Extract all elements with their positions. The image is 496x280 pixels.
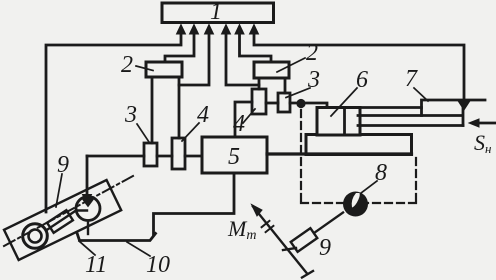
- wire valve 4R to valve 3R: [266, 102, 278, 105]
- hatch ticks on screw: [262, 221, 274, 232]
- svg-text:8: 8: [375, 160, 387, 186]
- block 2 right (sensor): [254, 62, 289, 78]
- junction node: [296, 99, 305, 108]
- arrow into block 1 (1st): [177, 25, 186, 35]
- pump block 11 rotated housing: [4, 180, 121, 260]
- arrow into block 1 (4th): [222, 25, 231, 35]
- wire from duct right line: [179, 33, 209, 85]
- wire body right line: [284, 78, 287, 93]
- wire riser to pump: [86, 156, 89, 197]
- pointer line label 8: [361, 181, 377, 193]
- arrow S_n feed: [477, 122, 496, 125]
- svg-text:9: 9: [57, 152, 69, 178]
- guide line barrel top to block 7: [360, 106, 422, 109]
- wire valve 3R to cylinder: [290, 103, 327, 108]
- piston rod upper line: [358, 114, 462, 117]
- rod from coupling 8: [314, 213, 343, 234]
- end tick of screw: [302, 271, 313, 278]
- wire right outer loop: [254, 33, 464, 100]
- pointer line label 4 left: [182, 123, 199, 141]
- valve 4 right: [252, 89, 266, 114]
- svg-text:11: 11: [85, 252, 107, 278]
- slider 9 left: [47, 210, 73, 233]
- pointer line label 6: [331, 88, 357, 116]
- pointer line label 3 left: [137, 124, 149, 142]
- slider 9 right: [291, 228, 318, 252]
- svg-text:1: 1: [210, 0, 222, 25]
- rod from donut to pump: [46, 211, 87, 231]
- pointer line label 2 left: [136, 66, 153, 71]
- piston plate: [343, 108, 346, 136]
- arrow into block 1 (3rd): [205, 25, 214, 35]
- pointer line label 4 right: [243, 109, 255, 123]
- pump circle: [76, 197, 100, 221]
- dashed feedback box right edge: [415, 158, 417, 203]
- block 2 left (sensor): [146, 62, 182, 77]
- svg-text:5: 5: [228, 144, 240, 170]
- svg-text:9: 9: [319, 235, 331, 261]
- wire valve 4 left to block 5: [185, 155, 202, 158]
- axis dash-dot line: [4, 176, 133, 246]
- wire from right body line: [226, 33, 259, 85]
- svg-text:7: 7: [405, 66, 418, 92]
- pointer line label 9 left: [56, 174, 62, 207]
- svg-text:3: 3: [124, 102, 137, 128]
- dashed feedback box bottom edge: [301, 202, 416, 204]
- valve 3 right: [278, 93, 290, 112]
- svg-text:10: 10: [146, 252, 170, 278]
- svg-text:3: 3: [307, 67, 320, 93]
- arrow into block 1 (2nd): [190, 25, 199, 35]
- pointer line label 10: [127, 242, 150, 256]
- svg-text:2: 2: [121, 52, 133, 78]
- housing under cylinder: [306, 135, 412, 155]
- piston rod lower line: [358, 124, 463, 127]
- block 1 (controller): [162, 3, 274, 23]
- wire duct left line: [151, 77, 154, 143]
- arrow into block 7: [458, 100, 471, 110]
- pointer line label 3 right: [286, 88, 310, 98]
- wire block5 down to lever 10: [154, 173, 235, 235]
- wire main left: [87, 155, 144, 158]
- valve 4 left: [172, 138, 185, 169]
- lever 10 (fork): [77, 233, 156, 241]
- pointer line label 2 right: [277, 58, 305, 72]
- arrow onto pump: [83, 195, 92, 205]
- link slider to screw: [283, 248, 296, 250]
- arrow M_t: [252, 205, 263, 217]
- svg-text:2: 2: [306, 40, 318, 66]
- svg-text:4: 4: [197, 102, 209, 128]
- cylinder 6 barrel: [317, 108, 360, 136]
- wire riser block5 to valve 4 right: [235, 102, 252, 137]
- pointer line label 11: [79, 241, 95, 255]
- pump axis line: [87, 221, 89, 235]
- wire main right (block5 to housing corner): [267, 152, 412, 155]
- wire duct right line: [178, 77, 181, 138]
- arrow into block 1 (5th): [235, 25, 244, 35]
- wire from valve 2 right top: [240, 33, 272, 62]
- svg-text:6: 6: [356, 67, 368, 93]
- block 7 (tool slide): [422, 100, 486, 126]
- wire between valves 3 and 4 left: [157, 155, 172, 158]
- wire left outer loop: [46, 33, 181, 212]
- pointer line label 7: [414, 88, 428, 101]
- dashed feedback box left edge: [300, 110, 302, 203]
- svg-text:4: 4: [233, 111, 245, 137]
- arrow into block 1 (6th): [250, 25, 259, 35]
- pump triangle: [82, 199, 94, 207]
- lead screw M_t: [253, 207, 307, 274]
- wire body left line: [258, 78, 261, 89]
- coupling wheel (donut): [23, 224, 48, 249]
- wire from valve 2 left top: [165, 33, 194, 62]
- valve 3 left: [144, 143, 157, 166]
- block 5 (drive unit): [202, 137, 267, 173]
- coupling 8: [343, 192, 368, 217]
